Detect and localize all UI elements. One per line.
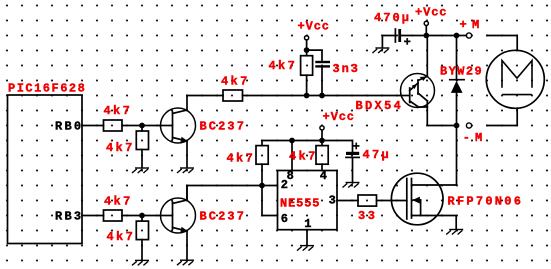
junction C1/base wire [319,93,325,99]
svg-text:4k7: 4k7 [104,195,130,209]
wire R9 to Q4 gate [377,200,407,202]
capacitor C1 3n3 [317,62,329,96]
ground (Q1 emitter) [177,168,194,173]
wire Q4 source [412,216,457,230]
svg-text:BYW29: BYW29 [440,65,482,79]
IC U1 NE555 body [278,171,338,230]
wire Q2 collector to node C [187,186,262,201]
svg-text:4: 4 [320,169,327,183]
svg-text:6: 6 [281,212,288,226]
svg-text:BDX54: BDX54 [356,99,401,113]
transistor Q3 BDX54 [401,36,435,108]
wire pin 8 [291,141,293,171]
svg-text:4k7: 4k7 [227,152,253,166]
power +Vcc (node B supply) [305,36,309,56]
junction RB3/R4 [139,213,145,219]
power +Vcc (555 rail) [320,126,324,141]
svg-text:BC237: BC237 [200,210,244,224]
wire R1 to Q1 base [122,125,161,127]
wire R5 to BDX54 base [243,95,402,97]
svg-text:4k7: 4k7 [289,150,315,164]
resistor R9 33 (gate) [358,195,377,206]
svg-text:+: + [353,140,360,154]
svg-text:+Vcc: +Vcc [415,6,447,20]
wire pin 1 [306,230,308,246]
junction node C pin2/6 [259,183,265,189]
junction node B top [304,47,310,53]
junction node -M [454,123,460,129]
svg-text:RB0: RB0 [55,119,81,133]
svg-text:4k7: 4k7 [104,104,130,118]
svg-text:3: 3 [329,194,336,208]
svg-text:PIC16F628: PIC16F628 [8,81,85,95]
wire Q4 drain to node -M [412,184,457,186]
svg-text:RB3: RB3 [55,209,81,223]
junction node +M [454,33,460,39]
wire node -M to Q4 drain [456,126,458,186]
wire Q3 collector to node -M [427,101,456,126]
terminal +M [466,33,471,38]
svg-text:4k7: 4k7 [269,59,295,73]
diode D1 BYW29 [450,36,464,126]
junction R6/base wire [304,93,310,99]
junction RB0/R2 [139,123,145,129]
svg-text:+Vcc: +Vcc [298,20,330,34]
wire node B to C1 [307,50,322,61]
wire motor bottom lead [487,108,517,125]
resistor R6 4k7 (to +Vcc) [301,56,313,96]
resistor R8 4k7 (555 reset) [316,141,328,171]
terminal -M [466,123,471,128]
wire Q1 collector to R5 [187,95,223,97]
svg-text:4k7: 4k7 [106,141,132,155]
svg-text:3n3: 3n3 [333,62,358,76]
wire pin 6 [262,186,278,216]
resistor R7 4k7 (555 charge) [256,141,268,186]
ground (555 pin 1) [297,246,314,251]
wire +M rail [426,35,466,37]
junction 555 Vcc rail [319,138,325,144]
svg-text:4k7: 4k7 [221,75,247,89]
transistor Q1 emitter arrow [180,137,187,142]
junction +Vcc/C3 [423,33,429,39]
junction 555 pin8 rail [289,138,295,144]
svg-text:47µ: 47µ [363,148,389,162]
resistor R1 4k7 (RB0 series) [104,120,123,131]
capacitor C2 47u [346,152,359,182]
svg-text:+Vcc: +Vcc [323,110,355,124]
ground (C3) [372,48,389,53]
svg-text:1: 1 [304,217,311,231]
ground (R4) [132,260,149,265]
transistor Q2 BC237 [161,186,196,260]
ground (Q2 emitter) [177,260,194,265]
ground (C2) [343,183,360,188]
svg-text:+: + [404,36,411,50]
wire pin RB0 [82,125,104,127]
wire motor top lead [487,36,517,51]
wire pin 2 [262,185,278,187]
svg-text:4k7: 4k7 [107,230,133,244]
svg-text:BC237: BC237 [200,120,244,134]
resistor R2 4k7 (RB0 pulldown) [136,126,148,168]
transistor Q3 emitter arrows [412,84,418,89]
power +Vcc (motor rail) [424,21,428,35]
IC U2 PIC16F628 body [8,95,83,244]
wire Vcc rail to C2 [262,141,353,152]
svg-text:NE555: NE555 [280,197,320,211]
resistor R4 4k7 (RB3 pulldown) [136,216,148,260]
capacitor C3 470u [382,29,426,48]
transistor Q4 RFP70N06 [391,173,443,225]
wire pin RB3 [82,215,104,217]
transistor Q4 bulk arrow [412,197,420,204]
wire pin 3 [337,200,358,202]
ground (R2) [132,168,149,173]
resistor R3 4k7 (RB3 series) [104,210,123,221]
transistor Q1 BC237 [161,96,196,168]
transistor Q2 emitter arrow [180,227,187,232]
resistor R5 4k7 (Q1 collector load) [223,90,243,101]
ground (Q4 source) [446,230,463,235]
wire R3 to Q2 base [122,215,161,217]
motor M1 [486,50,544,108]
svg-text:2: 2 [281,178,288,192]
